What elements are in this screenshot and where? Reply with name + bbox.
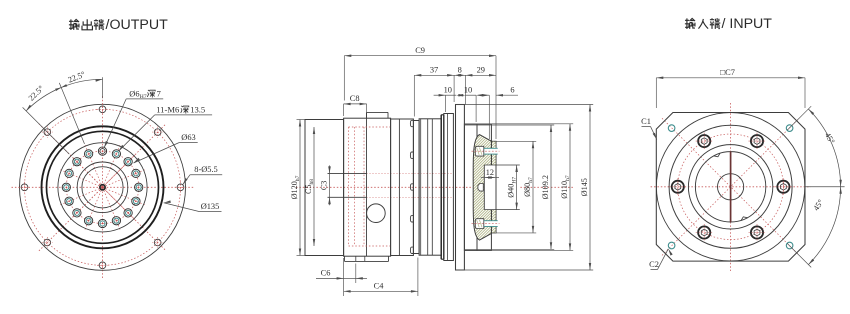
svg-text:/OUTPUT: /OUTPUT (106, 17, 169, 33)
adapter boss R3 (491, 141, 496, 233)
svg-text:/ INPUT: / INPUT (722, 16, 773, 32)
svg-text:C3: C3 (319, 181, 328, 191)
label C3 (319, 181, 328, 191)
leader 11-M6深13.5 (119, 115, 213, 151)
dimension C8 (344, 103, 367, 116)
right view circle near-square (656, 113, 804, 261)
right view keyway notches (714, 153, 748, 221)
right view 6 bolt holes (669, 133, 792, 241)
housing joint line (366, 112, 368, 256)
svg-text:Ø63: Ø63 (181, 133, 195, 142)
label C8 (350, 94, 360, 103)
bottom clamp screw (472, 219, 500, 229)
input coupling section (hatched) (330, 130, 689, 250)
svg-text:12: 12 (486, 168, 494, 177)
left view bolt circle small (pitch) (66, 151, 138, 223)
label Ø109.2 (541, 175, 550, 199)
dimension 10b (458, 94, 483, 122)
label C7 (720, 68, 735, 77)
leader 8-Ø5.5 (183, 175, 223, 185)
adapter ring R1 (464, 124, 477, 250)
left view bolt circle large (pitch) (25, 109, 181, 265)
ring section B joint line (398, 119, 400, 256)
dimension 10a (434, 94, 464, 112)
svg-text:H7: H7 (140, 94, 147, 100)
svg-text:C8: C8 (350, 94, 360, 103)
input flange square (656, 113, 805, 262)
dimension Ø120h7 (297, 120, 306, 256)
flange disc Ø135 (305, 120, 344, 256)
label C9 (415, 46, 425, 55)
label 37 (430, 65, 438, 74)
right view diagonal centerline b (662, 118, 799, 255)
label 10a (444, 85, 452, 94)
dimension Ø40H7 (515, 165, 518, 210)
label C5h8 (304, 179, 315, 194)
central bore Ø40 (484, 165, 520, 210)
adapter ring R2 (477, 124, 491, 250)
leader Ø6H7深7 (104, 99, 163, 148)
left view title (69, 17, 168, 33)
housing top lug (367, 112, 389, 118)
svg-text:Ø135: Ø135 (201, 202, 220, 211)
left view centerline diagonal 135 (39, 124, 166, 251)
input flange plate (456, 105, 465, 271)
right view large circle (669, 125, 792, 248)
svg-text:Ø109.2: Ø109.2 (541, 175, 550, 199)
label C4 (374, 282, 385, 291)
left view centerline horizontal (12, 186, 194, 188)
dimension Ø110h7 (464, 124, 573, 251)
right view corner holes (668, 125, 793, 249)
ring G joint (447, 114, 449, 261)
label Ø63 (181, 133, 195, 142)
dimension C4 (344, 258, 418, 297)
right view centerline vertical (730, 103, 732, 271)
ring section B (391, 119, 414, 256)
right view centerline horizontal (651, 186, 811, 188)
dimension 6 (478, 94, 519, 139)
left view center hole (100, 185, 105, 190)
ring section C (413, 121, 419, 254)
left view 8-Ø5.5 holes (19, 104, 186, 271)
housing body (344, 118, 391, 256)
label C2 (649, 260, 659, 269)
svg-text:29: 29 (477, 65, 485, 74)
label C6 (321, 269, 331, 278)
right view title (685, 16, 772, 32)
housing bottom lug (345, 256, 389, 261)
right view bolt pitch circle (678, 134, 784, 240)
middle view centerline (296, 186, 573, 188)
svg-text:10: 10 (464, 85, 472, 94)
svg-text:□C7: □C7 (720, 68, 735, 77)
right view circle r42 (688, 145, 772, 229)
ring section D-E (419, 119, 441, 255)
dimension Ø80h7 (497, 141, 537, 233)
left view bolt hole spokes (59, 144, 146, 231)
leader Ø135 (164, 200, 222, 211)
left view centerline vertical (102, 96, 104, 278)
hidden ring gear (red dotted rect) (349, 127, 391, 246)
ring section G (444, 114, 454, 261)
right view diagonal centerline a (662, 118, 799, 255)
svg-text:8: 8 (458, 65, 462, 74)
dimension Ø145 (456, 105, 594, 271)
left view 22.5 label a (67, 70, 87, 85)
label 8-Ø5.5 (194, 165, 218, 174)
ring D-E joints (421, 119, 433, 255)
svg-text:10: 10 (444, 85, 452, 94)
svg-text:13.5: 13.5 (190, 104, 205, 114)
dimension C6 (316, 258, 367, 283)
label 6 (510, 85, 514, 94)
label 45 lower (812, 198, 826, 213)
svg-text:C9: C9 (415, 46, 425, 55)
svg-text:C4: C4 (374, 282, 385, 291)
left view 22.5 label b (27, 84, 46, 103)
svg-text:8-Ø5.5: 8-Ø5.5 (194, 165, 218, 174)
hidden bore centerlines (367, 173, 453, 197)
right view shaft bore (718, 174, 744, 200)
left view 11-M6 bolt holes (62, 147, 143, 228)
label 11-M6深13.5 (156, 104, 205, 114)
leader C1 (642, 127, 657, 140)
left view thick circle Ø135 (42, 126, 164, 248)
leader C2 (651, 249, 673, 270)
label Ø145 (580, 178, 589, 196)
clamp slot block (478, 184, 483, 192)
dimension C5h8 (313, 127, 315, 246)
svg-text:11-M6: 11-M6 (156, 104, 180, 114)
svg-text:Ø145: Ø145 (580, 178, 589, 196)
svg-text:6: 6 (510, 85, 514, 94)
svg-text:Ø6: Ø6 (129, 89, 139, 98)
label C1 (641, 117, 651, 126)
svg-text:C1: C1 (641, 117, 651, 126)
left view 22.5 degree dimension arcs (23, 77, 103, 154)
svg-text:7: 7 (157, 89, 161, 98)
label Ø6H7深7 (129, 89, 160, 100)
left view circle Ø.. (58, 143, 147, 232)
label Ø110h7 (560, 175, 571, 199)
dimension C9 (344, 55, 496, 140)
left view inner circle a (77, 162, 128, 213)
label Ø135 (201, 202, 220, 211)
label 10b (464, 85, 472, 94)
dimension C7 (656, 77, 805, 109)
flange bore step lines C3 (328, 173, 367, 197)
svg-text:37: 37 (430, 65, 438, 74)
left view outer circle Ø170 flange (20, 104, 186, 270)
label Ø120h7 (290, 175, 301, 199)
left view circle inside thick (47, 131, 159, 243)
dimension 37-8-29 extensions (414, 74, 496, 117)
label 12 (486, 168, 494, 177)
svg-text:C6: C6 (321, 269, 331, 278)
dark ring F (441, 115, 444, 259)
label 8 (458, 65, 462, 74)
label 45 upper (823, 131, 837, 145)
leader Ø63 (134, 143, 198, 163)
top clamp screw (472, 146, 500, 156)
left view centerline diagonal 45 (39, 124, 166, 251)
dimension C3 (328, 165, 331, 205)
45 degree dimension arcs (787, 106, 844, 267)
housing plug circle (367, 204, 386, 223)
label Ø80h7 (523, 177, 534, 197)
left view inner circle b (82, 167, 123, 208)
right view circle r35 (695, 152, 765, 222)
right view clamp slot (730, 152, 732, 222)
label Ø40H7 (506, 177, 517, 198)
dimension Ø109.2 (464, 125, 554, 249)
dimension 12 (481, 176, 499, 179)
svg-text:C2: C2 (649, 260, 659, 269)
section B bolt tabs (410, 120, 413, 253)
label 29 (477, 65, 485, 74)
